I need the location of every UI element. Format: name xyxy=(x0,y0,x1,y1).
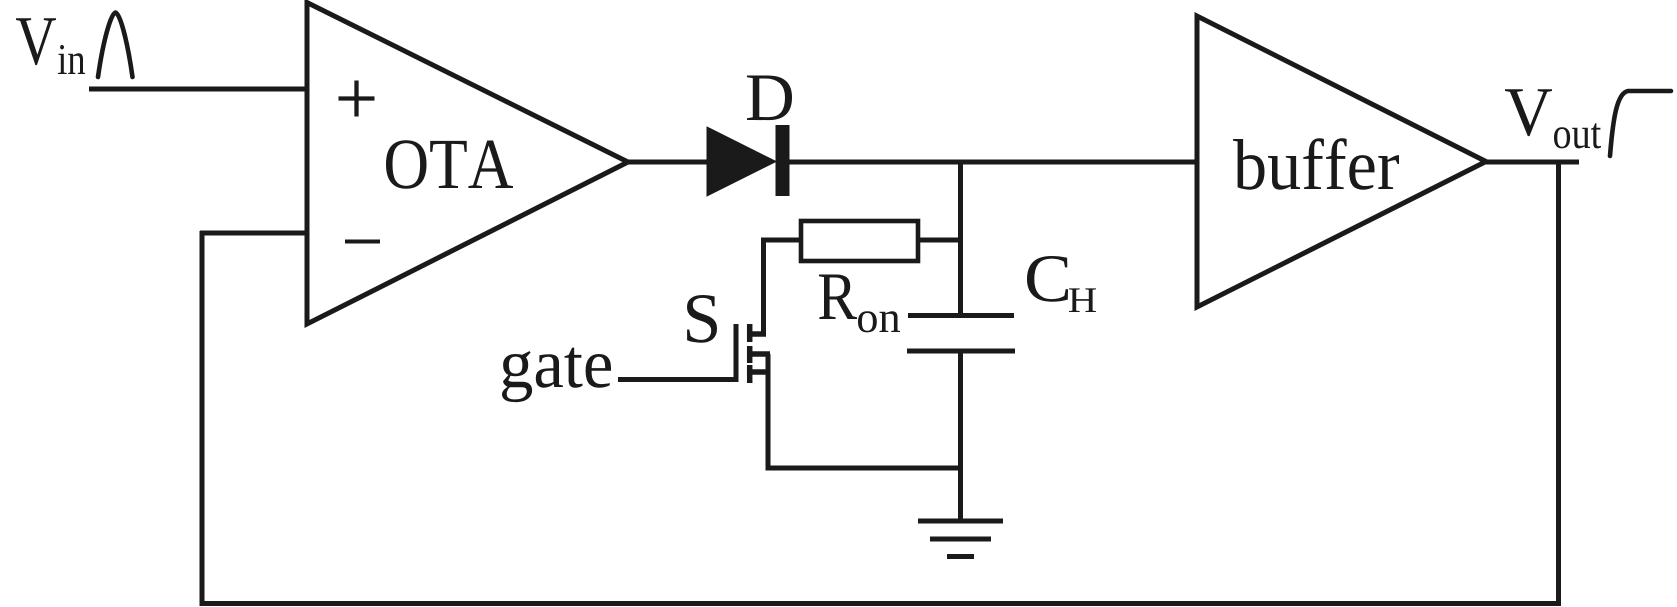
diode D anode triangle xyxy=(707,127,776,196)
wire resistor Ron left lead xyxy=(761,238,801,243)
wire resistor Ron right lead xyxy=(918,238,960,243)
wire drain up to resistor branch xyxy=(761,240,766,334)
transistor Q1 source stub xyxy=(750,369,770,375)
diode D cathode bar xyxy=(776,125,790,196)
label S xyxy=(687,295,717,343)
op-amp plus input symbol xyxy=(339,81,375,117)
transistor Q1 channel segment body xyxy=(747,346,753,363)
label Ron xyxy=(819,275,900,333)
buffer label xyxy=(1233,138,1399,189)
wire feedback to OTA minus input xyxy=(200,231,309,236)
wire feedback left vertical xyxy=(200,231,205,606)
transistor Q1 switch S gate bar xyxy=(734,324,739,382)
label CH xyxy=(1027,256,1096,312)
wire source down to ground return xyxy=(766,354,771,468)
op-amp U1 OTA triangle xyxy=(307,3,628,325)
wire Vin to OTA + input xyxy=(89,87,309,92)
transistor Q1 body stub xyxy=(750,351,770,357)
wire OTA output to diode anode xyxy=(628,160,709,165)
wire capacitor CH to ground xyxy=(958,351,963,519)
wire diode cathode to buffer input xyxy=(789,160,1197,165)
label D xyxy=(747,76,792,121)
wire feedback right vertical xyxy=(1556,162,1561,606)
transistor Q1 channel segment source xyxy=(747,365,753,383)
buffer U2 triangle xyxy=(1197,16,1486,307)
node Vin label xyxy=(16,18,85,74)
transistor Q1 channel segment drain xyxy=(747,324,753,342)
Vout step response waveform icon xyxy=(1610,91,1671,156)
wire buffer output xyxy=(1486,160,1579,165)
wire hold node down to capacitor CH xyxy=(958,162,963,315)
ground symbol xyxy=(918,521,1003,557)
wire feedback bottom horizontal xyxy=(200,601,1562,606)
wire ground return horizontal xyxy=(766,466,961,471)
capacitor CH top plate xyxy=(908,313,1014,318)
label Vout xyxy=(1505,89,1601,148)
Vin input pulse waveform icon xyxy=(98,13,133,78)
resistor Ron body xyxy=(801,221,918,261)
OTA label xyxy=(386,140,513,188)
label gate xyxy=(502,348,611,403)
transistor Q1 drain stub xyxy=(750,331,766,337)
op-amp minus input symbol xyxy=(345,240,380,244)
wire gate lead xyxy=(618,377,738,382)
capacitor CH bottom plate xyxy=(907,349,1015,354)
